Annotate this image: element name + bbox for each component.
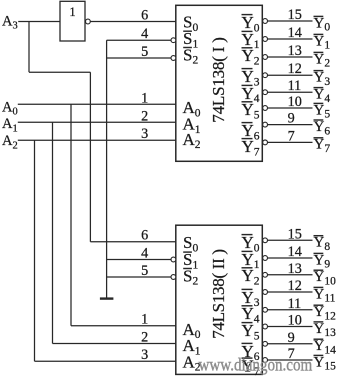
U1 output Y4 bubble — [263, 90, 268, 95]
svg-text:www.diangon.com: www.diangon.com — [199, 354, 313, 375]
wire A2 vertical tap — [34, 140, 36, 361]
U1 output Y1 bubble — [263, 37, 268, 42]
chip U1 74LS138(I) body — [176, 5, 262, 161]
U1 output Y6 bubble — [263, 122, 268, 127]
U2 output Y10 bubble — [263, 272, 268, 277]
svg-text:10: 10 — [288, 94, 302, 110]
wire U1 pin 12 output — [267, 74, 312, 76]
wire U1 pin 11 output — [267, 91, 312, 93]
svg-text:9: 9 — [288, 111, 295, 127]
svg-text:74LS138( II ): 74LS138( II ) — [209, 249, 228, 339]
wire U1 pin 5 horizontal — [107, 57, 172, 59]
wire U2 pin 10 output — [267, 326, 312, 328]
svg-text:4: 4 — [141, 26, 148, 42]
U2 output Y12 bubble — [263, 307, 268, 312]
inverter G1 output bubble — [86, 19, 91, 24]
wire U1 pin 10 output — [267, 107, 312, 109]
wire U1 pin 7 output — [267, 141, 312, 143]
U2 output Y11 bubble — [263, 290, 268, 295]
wire U1 pin 9 output — [267, 124, 312, 126]
svg-text:2: 2 — [141, 108, 148, 124]
wire A2 to U2 pin 3 — [35, 360, 177, 362]
wire U1 pin 13 output — [267, 56, 312, 58]
svg-text:11: 11 — [288, 78, 302, 94]
svg-text:6: 6 — [141, 8, 148, 24]
U1 output Y0 bubble — [263, 19, 268, 24]
svg-text:3: 3 — [141, 126, 148, 142]
svg-text:2: 2 — [141, 330, 148, 346]
wire A0 to U2 pin 1 — [71, 325, 176, 327]
wire A3 vertical to U2 — [89, 72, 91, 242]
ground symbol — [100, 297, 114, 299]
wire A3 jog horizontal — [29, 71, 90, 73]
svg-text:14: 14 — [288, 244, 302, 260]
U1 pin 4 input bubble — [171, 38, 176, 43]
U1 output Y7 bubble — [263, 140, 268, 145]
wire enable vertical to ground — [106, 40, 108, 297]
svg-text:12: 12 — [288, 61, 302, 77]
wire A1 vertical tap — [52, 122, 54, 343]
wire U1 pin 14 output — [267, 38, 312, 40]
svg-text:1: 1 — [141, 312, 148, 328]
svg-text:7: 7 — [288, 128, 295, 144]
wire U1 pin 4 horizontal — [107, 39, 172, 41]
svg-text:12: 12 — [288, 278, 302, 294]
wire U1 pin 15 output — [267, 20, 312, 22]
wire A2 horizontal to U1 pin 3 — [18, 139, 176, 141]
svg-text:13: 13 — [288, 261, 302, 277]
inverter gate G1 body — [60, 1, 85, 41]
U1 output Y5 bubble — [263, 106, 268, 111]
wire A0 vertical tap — [70, 104, 72, 325]
wire U2 pin 7 output — [267, 359, 312, 361]
wire A3 to U2 pin 6 — [90, 241, 176, 243]
wire U2 pin 4 horizontal — [107, 259, 172, 261]
svg-text:74LS138( I ): 74LS138( I ) — [209, 37, 228, 122]
U2 output Y13 bubble — [263, 324, 268, 329]
U1 pin 5 input bubble — [171, 56, 176, 61]
U2 pin 5 input bubble — [171, 275, 176, 280]
wire A1 to U2 pin 2 — [53, 343, 177, 345]
svg-text:15: 15 — [288, 226, 302, 242]
wire A0 horizontal to U1 pin 1 — [18, 103, 176, 105]
wire U2 pin 12 output — [267, 291, 312, 293]
svg-text:1: 1 — [69, 5, 75, 19]
svg-text:15: 15 — [288, 7, 302, 23]
wire U2 pin 13 output — [267, 274, 312, 276]
svg-text:1: 1 — [141, 90, 148, 106]
svg-text:4: 4 — [141, 246, 148, 262]
U2 output Y9 bubble — [263, 256, 268, 261]
svg-text:14: 14 — [288, 25, 302, 41]
wire U2 pin 11 output — [267, 309, 312, 311]
U2 output Y15 bubble — [263, 358, 268, 363]
wire U2 pin 15 output — [267, 239, 312, 241]
wire A1 horizontal to U1 pin 2 — [18, 121, 176, 123]
U1 output Y3 bubble — [263, 73, 268, 78]
svg-text:13: 13 — [288, 43, 302, 59]
svg-text:9: 9 — [288, 330, 295, 346]
svg-text:3: 3 — [141, 347, 148, 363]
svg-text:6: 6 — [141, 228, 148, 244]
svg-text:5: 5 — [141, 263, 148, 279]
U2 output Y14 bubble — [263, 341, 268, 346]
U2 output Y8 bubble — [263, 238, 268, 243]
wire A3 to inverter input — [18, 21, 60, 23]
wire U2 pin 9 output — [267, 343, 312, 345]
wire U2 pin 14 output — [267, 257, 312, 259]
U1 output Y2 bubble — [263, 55, 268, 60]
U2 pin 4 input bubble — [171, 257, 176, 262]
wire A3 tap vertical — [28, 22, 30, 73]
watermark www.diangon.com — [199, 354, 313, 375]
wire U2 pin 5 horizontal — [107, 276, 172, 278]
wire inverter output to U1 pin 6 — [90, 21, 176, 23]
chip U2 74LS138(II) body — [176, 225, 262, 374]
svg-text:5: 5 — [141, 44, 148, 60]
svg-text:11: 11 — [288, 296, 302, 312]
svg-text:10: 10 — [288, 313, 302, 329]
